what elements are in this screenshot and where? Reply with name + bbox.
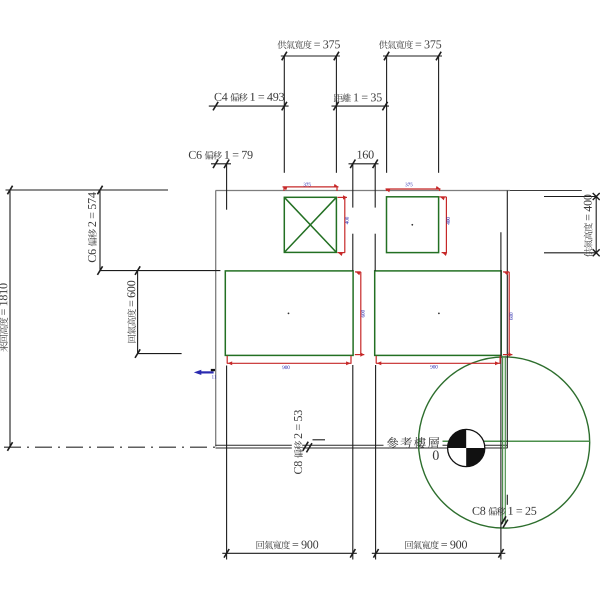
label 160 [358,151,374,159]
node supply duct square 1 with X [284,197,336,252]
wire extension sq1 left [283,56,285,173]
wire gray housing top edge [216,190,511,192]
dimension C4 偏移 1=493 [209,105,289,107]
dimension C8 偏移 2=53 [303,442,309,451]
label 回氣高度 = 600 [127,281,136,343]
wire circle horizontal diameter [419,440,590,442]
label C6 偏移 1 = 79 [189,151,253,160]
label blue 400 sq1 right [345,217,349,224]
label blue 900 rect1 bottom [282,366,289,370]
wire gray housing left edge [215,191,217,447]
red connector arrow sq1 [338,195,348,199]
dimension red rect1 width [227,362,352,364]
dimension 供氣寬度=375 left [281,55,340,57]
wire extension sq2 left [386,56,388,173]
dimension red rect1 height [360,272,362,354]
label 0 [433,451,439,460]
label 回氣寬度 = 900 right [405,541,467,550]
node return duct rectangle 1 [225,271,353,356]
dimension 来回高度=1810 [6,189,169,191]
dimension red sq1 width [283,186,339,188]
wire extension bottom dim1 right [352,365,354,560]
wire extension bottom dim1 left [226,366,228,560]
node return duct rectangle 2 [375,271,502,356]
label C6 偏移 2 = 574 [88,192,97,262]
label blue 600 rect1 right [361,310,365,317]
wire extension 160 left upper [352,164,354,208]
node supply duct square 2 [387,197,439,253]
wire extension sq1 right [335,56,337,173]
label blue 900 rect2 bottom [430,365,437,369]
dimension 距離 1=35 [332,105,390,107]
label 距離 1 = 35 [334,93,382,102]
label C8 偏移 1 = 25 [473,507,537,516]
wire circle vertical connector lines [502,356,504,524]
label C4 偏移 1 = 493 [215,93,285,102]
wire extension 160 right upper [374,164,376,208]
dimension C6 偏移 1=79 [211,163,231,165]
wire extension C6-1 [226,164,228,210]
node black connector square [211,369,215,371]
label blue 600 rect2 right [509,313,513,320]
label 參考樓層 [387,437,439,449]
wire extension C8-1 stub [506,495,508,505]
wire extension bottom dim2 left [375,365,377,560]
node level symbol [448,429,485,466]
dimension red rect2 height [508,272,510,354]
label 回氣寬度 = 900 left [257,541,319,550]
node blue flow arrow [194,370,214,375]
label 供氣寬度 = 375 left [278,40,340,49]
wire extension sq2 right [438,56,440,173]
wire extension bottom dim2 right [500,232,502,559]
dimension red sq2 width [386,188,441,190]
label blue 375 sq1 top [304,183,311,187]
wire extension mid-right lower [374,234,376,271]
label C8 偏移 2 = 53 [294,410,303,474]
wire extension mid-left lower [352,234,354,271]
label 来回高度 = 1810 [0,283,8,351]
dimension red sq2 height [445,197,447,253]
label 供氣寬度 = 375 right [379,40,441,49]
dimension C6 偏移 2=574 [99,190,101,271]
red connector arrow rect1 [355,352,365,356]
wire extension right C8 [506,191,508,449]
dimension red rect2 width [376,362,501,364]
dimension red sq1 height [344,197,346,252]
wire top reference line right part [510,190,582,192]
dimension 供氣寬度=375 right [383,55,442,57]
wire centerline dash-dot [4,446,216,448]
wire level datum line lower [216,447,508,449]
label blue 375 sq2 top [405,183,412,187]
dimension 160 [349,163,379,165]
dimension 回氣寬度=900 right [372,552,506,554]
dimension 回氣寬度=900 left [222,552,356,554]
dimension 回氣高度=600 [100,270,220,272]
label 供氣高度 = 400 [584,195,593,257]
dimension C8 偏移 1=25 [501,516,506,524]
dimension 供氣高度=400 [544,196,596,198]
node round duct circle [419,357,590,528]
label blue 400 sq2 right [446,217,450,224]
red connector arrow rect2 [503,352,513,356]
label blue tiny near arrow [212,375,216,378]
wire level datum line upper [216,444,508,446]
